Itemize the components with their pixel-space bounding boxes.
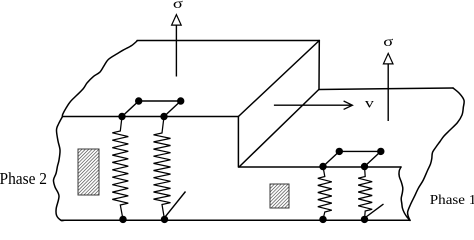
right lattice atom lower-left on front edge (319, 163, 326, 170)
left lattice bond lower-left to upper-left (122, 101, 139, 117)
spring 2 tall right (154, 117, 171, 220)
hatched rectangle in phase 2 front face (78, 149, 99, 195)
back edge of lower slab (319, 88, 453, 90)
right lattice atom upper-left (336, 148, 343, 155)
right lattice atom upper-right (377, 148, 384, 155)
spring 1 tall left (112, 117, 128, 220)
torn right edge front-face tear (399, 167, 410, 220)
svg-text:σ: σ (383, 33, 393, 49)
svg-text:Phase 2: Phase 2 (0, 169, 47, 188)
kinetic strike at spring 4 bottom (366, 204, 384, 217)
lower fold diagonal of step face (239, 90, 319, 168)
top-back edge of upper slab (137, 40, 319, 42)
bottom node of spring 4 (361, 216, 368, 223)
sigma arrowhead (right, open triangle) (383, 53, 393, 64)
spring 4 short right (358, 167, 372, 220)
left lattice atom upper-left (135, 97, 142, 104)
sigma arrow shaft (right) (387, 64, 389, 121)
bottom edge (61, 219, 410, 221)
front-top edge of upper slab (63, 116, 239, 118)
right lattice atom lower-right on front edge (361, 163, 368, 170)
right vertical edge of step face (318, 41, 320, 90)
svg-text:v: v (365, 96, 375, 111)
right lattice top bond (339, 150, 381, 152)
v arrowhead (344, 101, 353, 109)
right lattice bond lower-left to upper-left (323, 151, 339, 166)
left lattice atom upper-right (177, 97, 184, 104)
left lattice bond lower-right to upper-right (164, 101, 181, 117)
torn left edge lower part (53, 117, 64, 221)
front-top edge of lower slab (239, 166, 401, 168)
svg-text:Phase 1: Phase 1 (430, 192, 474, 207)
spring 3 short left (318, 167, 332, 220)
left lattice atom lower-right on front edge (160, 113, 167, 120)
bottom node of spring 1 (119, 216, 126, 223)
sigma arrow shaft (left) (175, 25, 177, 77)
upper fold diagonal of step face (238, 41, 319, 117)
bottom node of spring 3 (319, 216, 326, 223)
left lattice top bond (139, 100, 181, 102)
kinetic strike at spring 2 bottom (165, 192, 186, 218)
torn right edge top-face tear (408, 88, 465, 220)
sigma arrowhead (left, open triangle) (172, 15, 182, 26)
torn left edge upper part (62, 41, 137, 117)
svg-text:σ: σ (173, 0, 183, 12)
right lattice bond lower-right to upper-right (365, 151, 381, 166)
bottom node of spring 2 (161, 216, 168, 223)
hatched rectangle in phase 1 front face (270, 184, 289, 208)
v arrow shaft (274, 104, 352, 106)
front vertical edge of step (237, 117, 239, 168)
left lattice atom lower-left on front edge (118, 113, 125, 120)
